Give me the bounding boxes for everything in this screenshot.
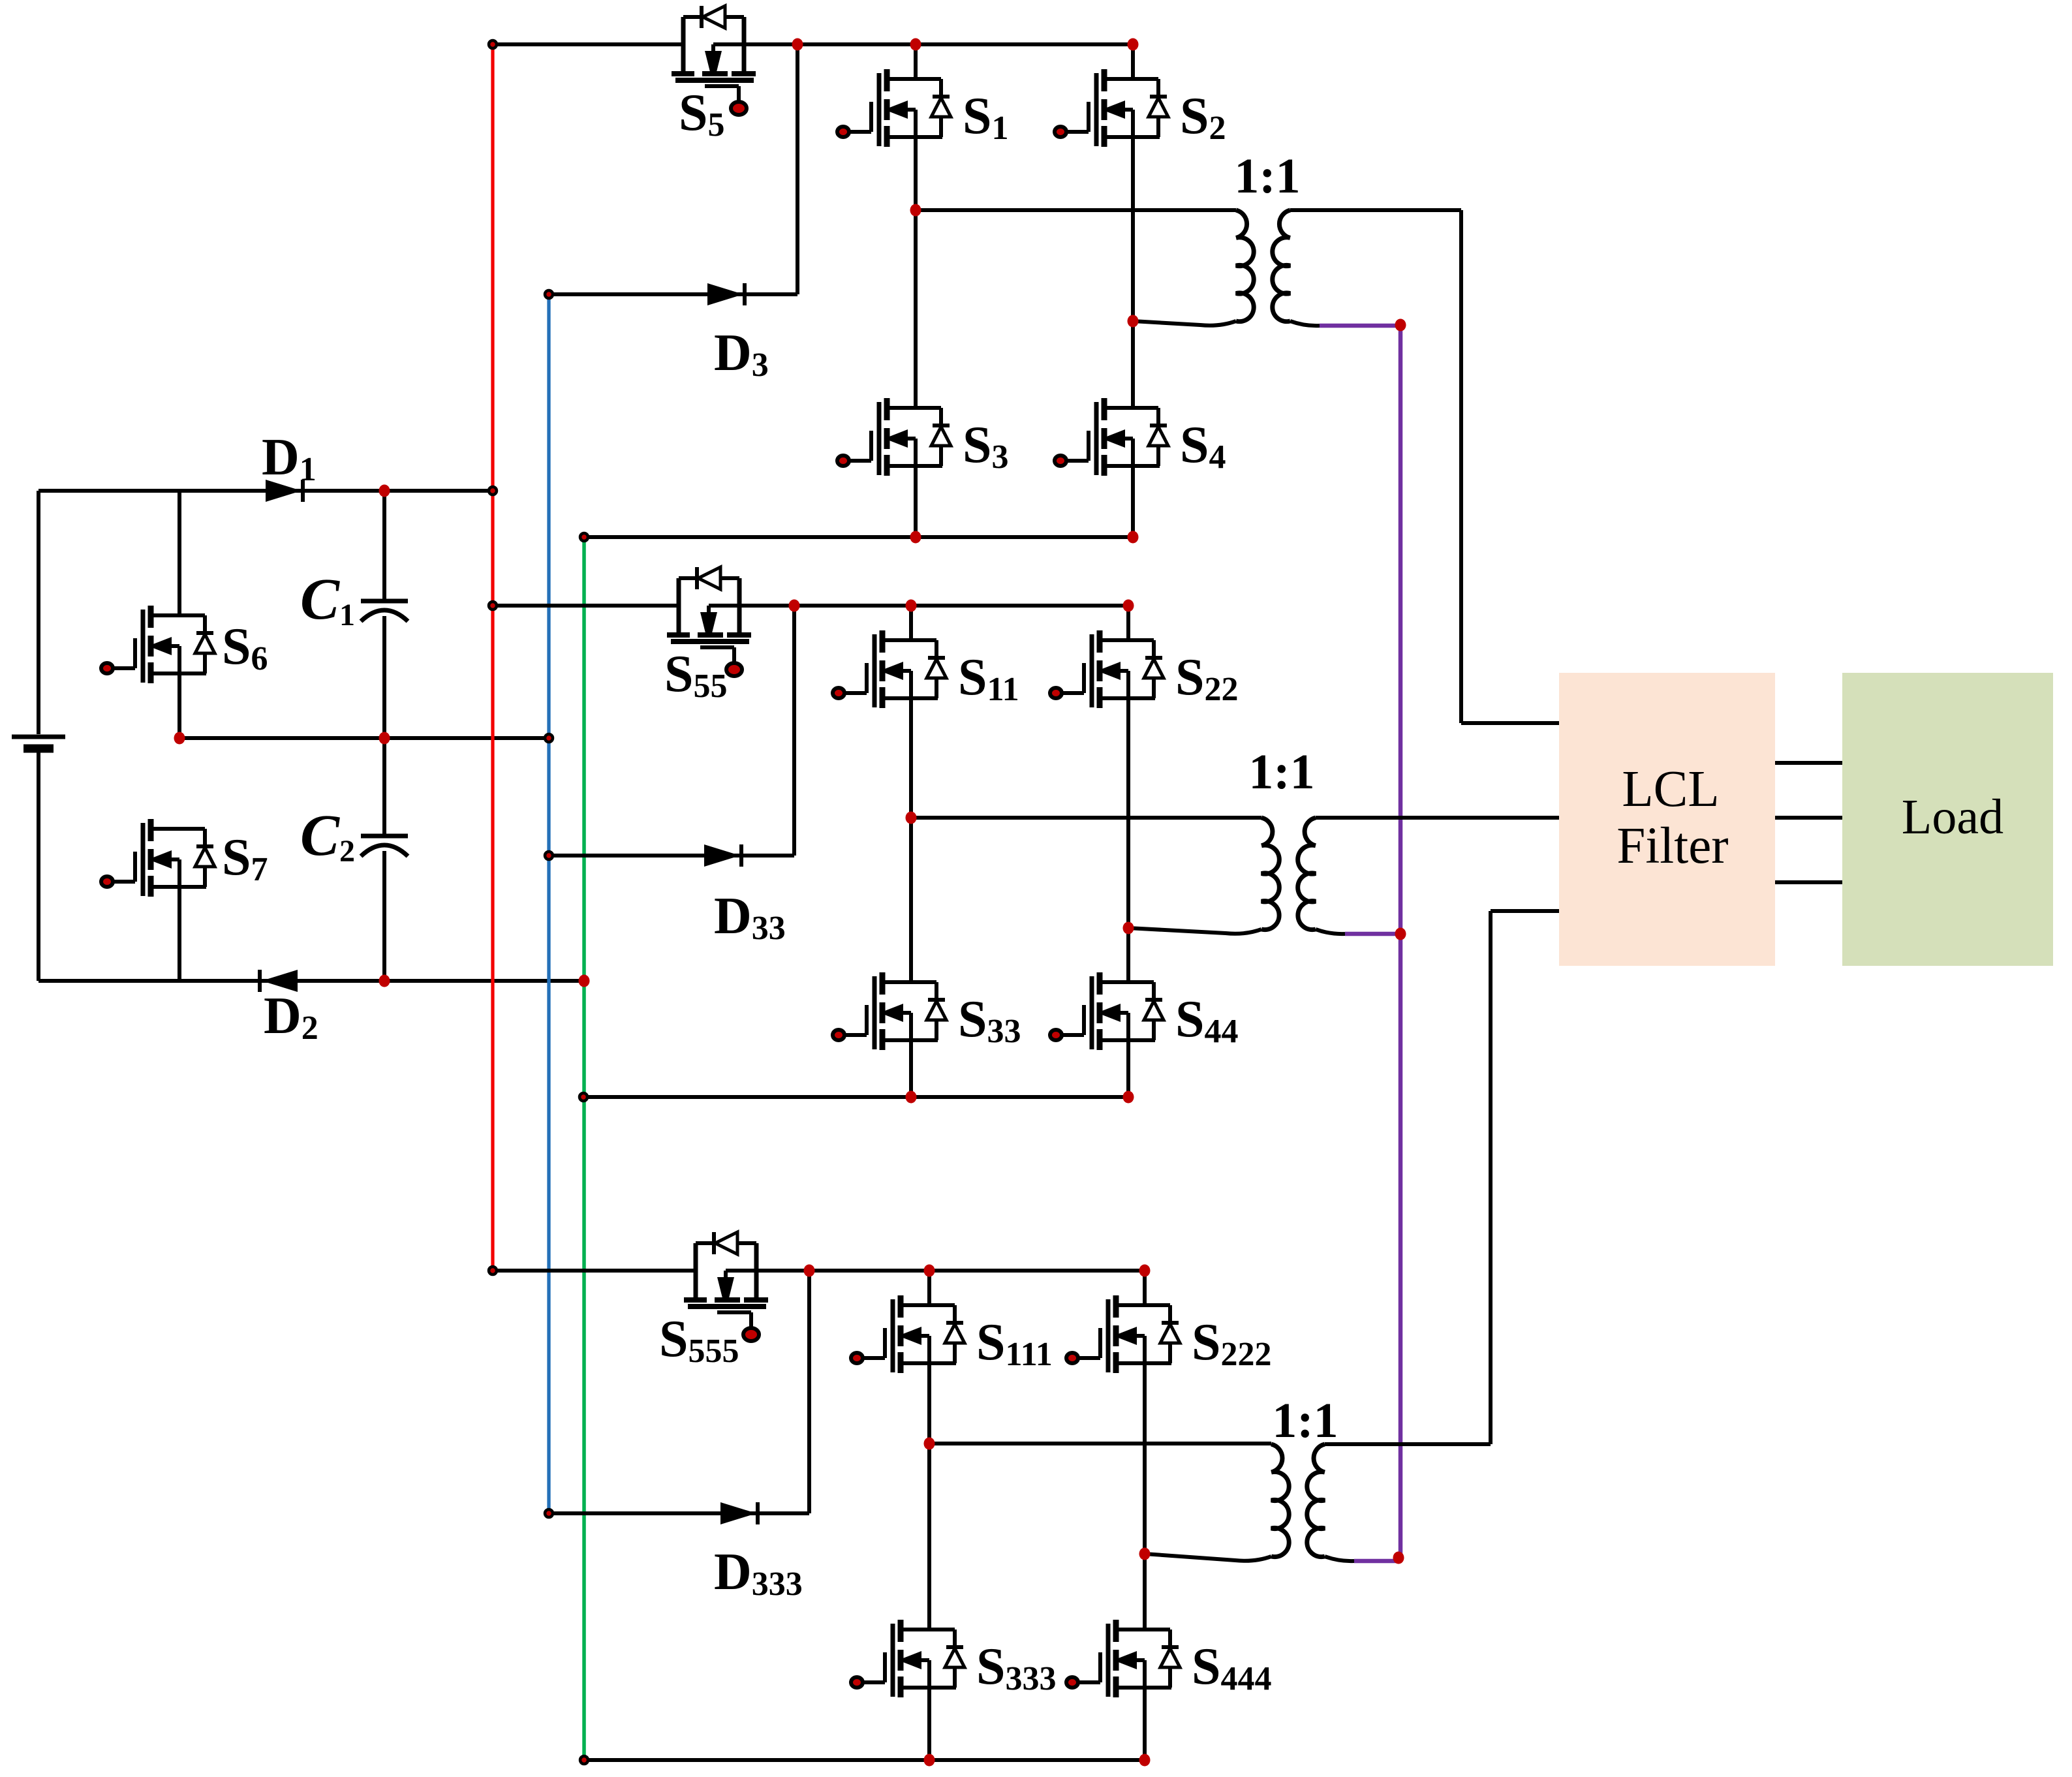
wire left leg midpoint (node A3) (927, 1363, 931, 1630)
wire left leg midpoint (node A2) (909, 698, 913, 982)
wire blue neutral bus (547, 294, 550, 1513)
diode D333 (714, 1502, 803, 1603)
wire LCL to Load phase 2 (1775, 816, 1842, 820)
wire capacitor branch top (382, 491, 386, 601)
node blue bus bottom (D333 anode) (545, 1509, 553, 1517)
diode D33 (704, 844, 786, 947)
node top rail junctions module 2 (489, 600, 1134, 612)
wire module 3 DC feed (red bus to S555) (493, 1269, 696, 1273)
wire S111 drain riser (927, 1271, 931, 1305)
transistor S6 (MOSFET S6) (101, 606, 268, 683)
svg-text:Filter: Filter (1616, 818, 1728, 874)
wire C2 branch verticals (382, 738, 386, 981)
wire left leg midpoint (node A1) (914, 137, 918, 408)
wire S22 drain riser (1126, 606, 1130, 640)
transistor S33 (MOSFET S33) (833, 972, 1021, 1050)
node D1 cathode junction (379, 485, 390, 497)
wire module 3 top rail (809, 1269, 1145, 1273)
wire S11 drain riser (909, 606, 913, 640)
wire module 1 DC feed (red bus to S5) (493, 42, 683, 46)
wire S7 source to bottom rail (178, 887, 181, 981)
battery V1 (DC source) (12, 737, 65, 749)
wire S6 source to midpoint node (178, 673, 181, 738)
capacitor C1 (300, 567, 408, 632)
wire right leg midpoint (node B2) (1126, 698, 1130, 982)
node T3 secondary to purple bus (bottom of purple) (1393, 1552, 1404, 1564)
wire T1 secondary to LCL input 1 (1290, 210, 1559, 723)
wire bridge output to transformer T1 primary top (916, 208, 1236, 212)
wire S44 source to bottom rail (1126, 1040, 1130, 1097)
transistor S2 (MOSFET S2) (1055, 69, 1226, 147)
wire bridge output to transformer T2 primary top (911, 816, 1261, 820)
wire bridge output to transformer T3 primary top (929, 1442, 1271, 1445)
capacitor C2 (300, 803, 408, 869)
wire module 2 DC feed (red bus to S55) (493, 604, 679, 608)
node midpoint junctions (174, 732, 553, 745)
node red bus tap at D1 (489, 487, 497, 495)
node module 1 bridge midpoints (910, 204, 1139, 328)
wire bottom return rail (39, 979, 584, 983)
transistor S555 (MOSFET S555, rotated) (659, 1232, 809, 1370)
transformer T1 secondary winding (1273, 210, 1290, 322)
transistor S3 (MOSFET S3) (837, 398, 1009, 476)
node module 1 bottom rail (580, 531, 1139, 544)
wire midpoint node horizontal (neutral) (179, 736, 549, 740)
wire T1 secondary bottom exit (1290, 321, 1320, 326)
node module 3 bridge midpoints (924, 1438, 1151, 1560)
wire right leg midpoint (node B1) (1131, 137, 1135, 408)
wire T3 secondary to LCL input 3 (1325, 911, 1559, 1444)
transformer T1 primary winding (1:1) (1133, 210, 1254, 326)
wire S3 source to bottom rail (914, 466, 918, 537)
transformer T2 secondary winding (1298, 818, 1316, 930)
diode D2 (260, 970, 318, 1047)
wire S1 drain riser (914, 44, 918, 79)
transistor S7 (MOSFET S7) (101, 819, 268, 897)
transistor S111 (MOSFET S111) (851, 1295, 1053, 1373)
transformer T3 primary winding (1:1) (1145, 1444, 1289, 1561)
wire S222 drain riser (1143, 1271, 1147, 1305)
wire S2 drain riser (1131, 44, 1135, 79)
wire T2 secondary to LCL input 2 (1316, 816, 1559, 820)
wire green DC- bus (582, 537, 586, 1760)
node T2 secondary to purple bus (1395, 928, 1406, 940)
wire C1 to midpoint (382, 616, 386, 738)
wire clamp diode D3 horizontal from blue bus (549, 292, 797, 296)
svg-text:1:1: 1:1 (1248, 745, 1314, 799)
wire clamp diode branch D3 vertical (796, 44, 799, 294)
wire module 3 bottom rail (green bus) (584, 1758, 1145, 1762)
wire LCL to Load phase 3 (1775, 880, 1842, 884)
wire module 2 top rail (794, 604, 1128, 608)
transistor S22 (MOSFET S22) (1050, 630, 1239, 708)
node module 2 bottom rail (580, 1091, 1134, 1104)
transformer T2 primary winding (1:1) (1128, 818, 1279, 934)
transistor S222 (MOSFET S222) (1066, 1295, 1272, 1373)
transistor S4 (MOSFET S4) (1055, 398, 1226, 476)
wire module 1 bottom rail (green bus) (584, 535, 1133, 539)
svg-text:1:1: 1:1 (1234, 149, 1300, 204)
node blue bus top (D3 anode) (545, 290, 553, 298)
diode D3 (707, 283, 769, 384)
wire LCL to Load phase 1 (1775, 761, 1842, 765)
wire battery left vertical (37, 491, 40, 981)
transistor S5 (MOSFET S5, rotated) (672, 6, 797, 144)
wire S6 branch from top rail (178, 491, 181, 615)
wire clamp diode D33 horizontal from blue bus (549, 854, 794, 858)
transistor S333 (MOSFET S333) (851, 1620, 1057, 1697)
wire clamp diode branch D33 vertical (792, 606, 796, 856)
node T1 secondary to purple bus (1395, 319, 1406, 332)
transformer T3 secondary winding (1307, 1444, 1325, 1557)
node blue bus tap D33 (545, 852, 553, 859)
wire clamp diode D333 horizontal from blue bus (549, 1511, 809, 1515)
node bottom rail junctions (379, 975, 590, 987)
svg-text:1:1: 1:1 (1272, 1393, 1338, 1448)
transistor S1 (MOSFET S1) (837, 69, 1009, 147)
transistor S444 (MOSFET S444) (1066, 1620, 1272, 1697)
wire S444 source to bottom rail (1143, 1688, 1147, 1760)
transistor S11 (MOSFET S11) (833, 630, 1019, 708)
wire T3 secondary bottom exit (1325, 1556, 1354, 1561)
Load block (1842, 673, 2053, 966)
node module 3 bottom rail (580, 1754, 1151, 1767)
wire S333 source to bottom rail (927, 1688, 931, 1760)
wire S33 source to bottom rail (909, 1040, 913, 1097)
wire red DC+ bus (491, 44, 494, 1271)
node top rail junctions module 3 (489, 1265, 1151, 1277)
wire purple secondary common bus (1399, 323, 1403, 1558)
node top rail junctions module 1 (489, 39, 1139, 51)
wire S4 source to bottom rail (1131, 466, 1135, 537)
diode D1 (262, 429, 317, 502)
wire purple link T3 secondary to common bus (1354, 1559, 1400, 1564)
svg-text:LCL: LCL (1622, 761, 1719, 818)
svg-text:Load: Load (1902, 790, 2003, 844)
wire right leg midpoint (node B3) (1143, 1363, 1147, 1630)
node module 2 bridge midpoints (906, 812, 1134, 935)
wire battery positive to D1 anode (top rail) (39, 489, 493, 493)
wire purple link T2 secondary to common bus (1345, 932, 1400, 936)
wire module 2 bottom rail (green bus) (583, 1095, 1128, 1099)
wire module 1 top rail (797, 42, 1133, 46)
wire T2 secondary bottom exit (1316, 929, 1345, 934)
transistor S44 (MOSFET S44) (1050, 972, 1239, 1050)
wire clamp diode branch D333 vertical (807, 1271, 811, 1513)
wire purple link T1 secondary to common bus (1320, 324, 1400, 328)
LCL filter block (1559, 673, 1775, 966)
transistor S55 (MOSFET S55, rotated) (664, 567, 794, 705)
